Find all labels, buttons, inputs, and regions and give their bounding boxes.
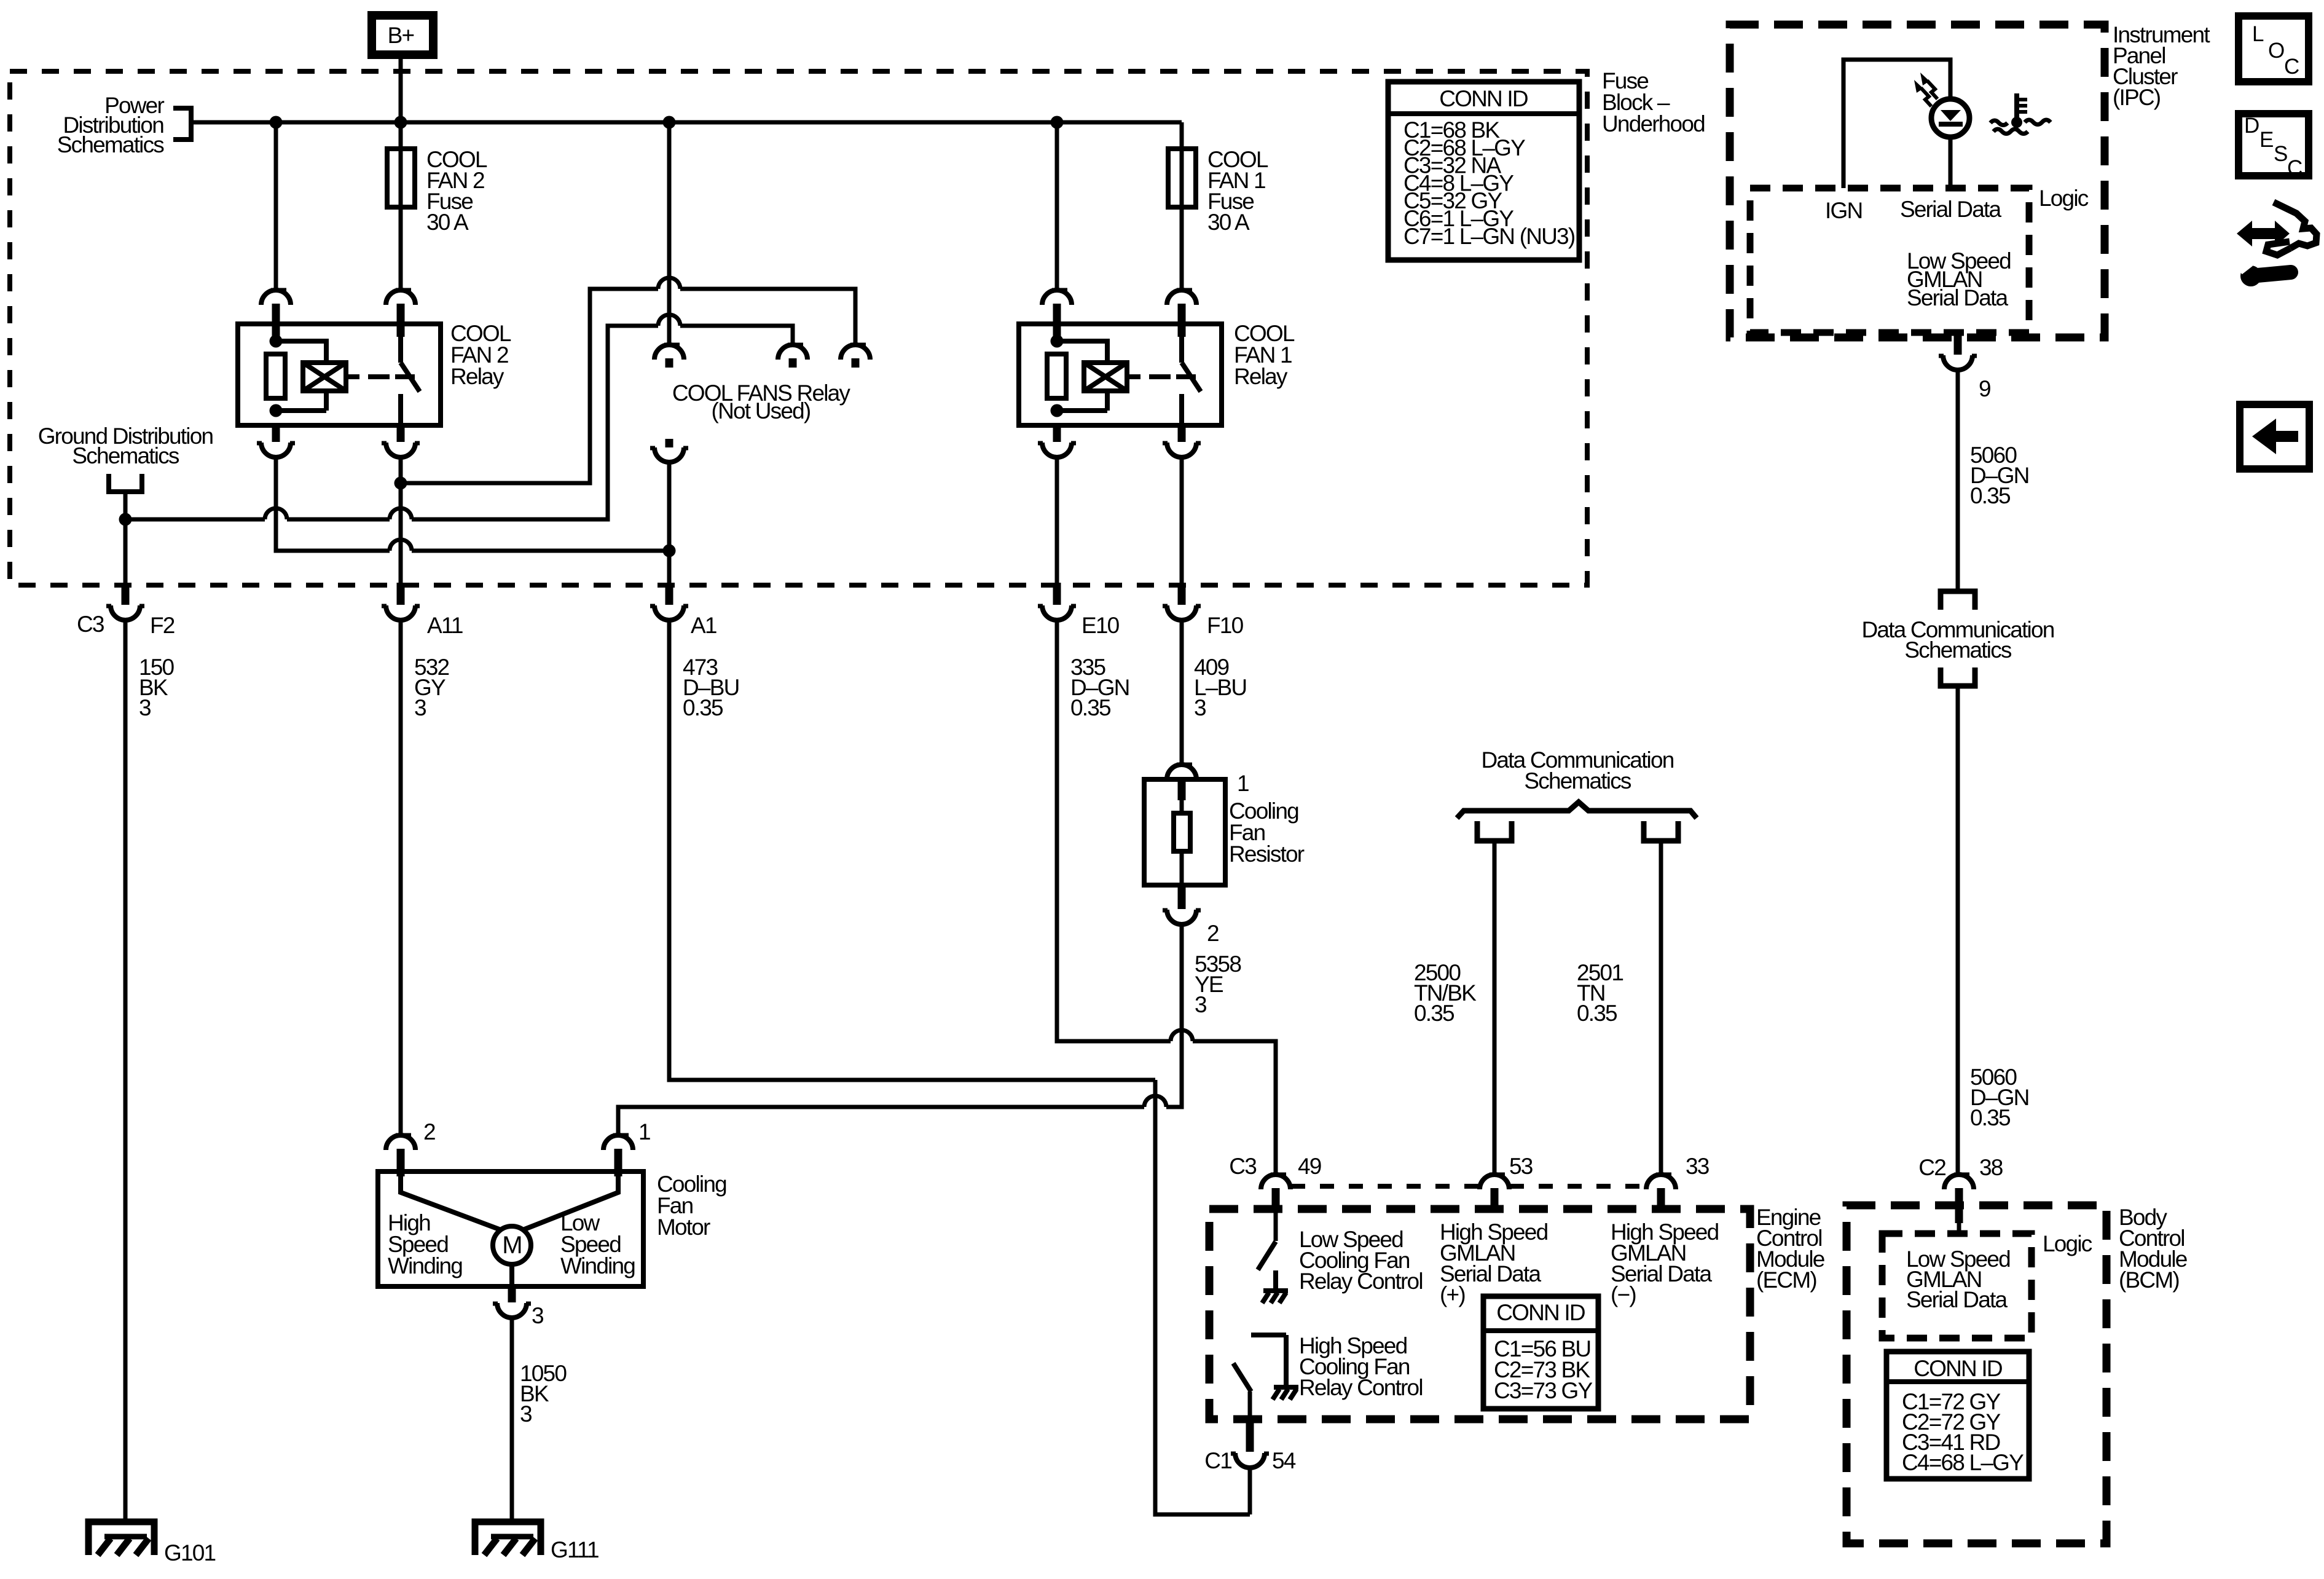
connector motor pin 1 [603, 1135, 633, 1150]
relay COOL FAN 1 Relay [1019, 324, 1222, 425]
connector exit E10 [1053, 583, 1061, 605]
wire COOL FAN 2 switch output branch [399, 457, 403, 583]
svg-text:(IPC): (IPC) [2113, 85, 2161, 110]
switch low speed cooling fan relay control [1274, 1212, 1278, 1241]
connector pin 86 COOL FAN 2 relay [261, 290, 291, 305]
switch high speed cooling fan relay control [1251, 1335, 1286, 1385]
svg-text:M: M [502, 1232, 522, 1259]
svg-text:C3: C3 [77, 612, 104, 637]
connector pin 85 COOL FAN 2 relay [272, 424, 280, 442]
svg-text:Motor: Motor [657, 1215, 710, 1240]
svg-text:Underhood: Underhood [1602, 111, 1705, 136]
svg-text:38: 38 [1979, 1155, 2003, 1180]
svg-text:G101: G101 [164, 1540, 216, 1565]
svg-text:(ECM): (ECM) [1756, 1267, 1816, 1293]
svg-text:Relay: Relay [1234, 364, 1288, 389]
svg-text:49: 49 [1298, 1154, 1321, 1179]
svg-text:Winding: Winding [388, 1253, 462, 1278]
svg-text:54: 54 [1272, 1448, 1296, 1473]
wire ECM connector tie line [1291, 1184, 1646, 1189]
wire 5060 D-GN lower [1956, 688, 1960, 1175]
svg-text:Schematics: Schematics [72, 443, 179, 468]
node bus junction coil2 [270, 116, 283, 129]
LED light arrows [1921, 81, 1937, 106]
svg-text:C1: C1 [1204, 1448, 1231, 1473]
logic dashed box BCM [1882, 1234, 2032, 1338]
connector pin 86 COOL FAN 1 relay [1042, 290, 1072, 305]
wire 473 D-BU down [669, 620, 1155, 1080]
svg-text:Relay Control: Relay Control [1299, 1375, 1423, 1400]
wire COOL FAN 2 coil low side [276, 457, 669, 551]
svg-text:0.35: 0.35 [1577, 1001, 1617, 1026]
wire motor internal windings [401, 1176, 618, 1230]
connector ECM pin 33 [1646, 1175, 1676, 1189]
wire BCM pin 38 into logic [1957, 1223, 1961, 1235]
connector pin 30 COOL FAN 2 relay [386, 290, 415, 305]
svg-text:2: 2 [423, 1119, 435, 1144]
svg-text:30 A: 30 A [1207, 210, 1250, 235]
svg-text:C3=73 GY: C3=73 GY [1494, 1378, 1593, 1403]
motor Cooling Fan Motor box [378, 1171, 643, 1286]
wire 335 D-GN down [1057, 620, 1276, 1175]
svg-text:Logic: Logic [2043, 1231, 2092, 1256]
icon back arrow box [2240, 404, 2309, 469]
svg-text:Winding: Winding [560, 1253, 635, 1278]
wire 150 BK to G101 [124, 620, 128, 1521]
table BCM CONN ID [1886, 1352, 2029, 1479]
fuse COOL FAN 1 Fuse 30A [1168, 149, 1196, 207]
svg-text:0.35: 0.35 [1970, 483, 2011, 508]
wire ground bracket stem [124, 492, 128, 583]
svg-text:Serial Data: Serial Data [1906, 1287, 2008, 1312]
svg-text:Schematics: Schematics [1524, 768, 1631, 793]
svg-text:Relay Control: Relay Control [1299, 1269, 1423, 1294]
wire 5060 D-GN upper [1956, 370, 1960, 589]
connector resistor pin 1 [1167, 765, 1196, 779]
wire ground distribution to FANS relay [125, 326, 793, 519]
reference bracket wire 2501 [1644, 821, 1678, 841]
connector exit A1 [665, 583, 673, 605]
module Instrument Panel Cluster dashed box [1730, 25, 2105, 337]
wire 409 L-BU to resistor [1180, 620, 1184, 765]
svg-text:Relay: Relay [450, 364, 504, 389]
connector ECM pin 53 [1480, 1175, 1509, 1189]
connector ECM pin 49 [1261, 1175, 1290, 1189]
wire 1050 BK to G111 [510, 1318, 514, 1522]
ground G111 [475, 1522, 541, 1555]
svg-text:0.35: 0.35 [1970, 1105, 2011, 1130]
svg-text:3: 3 [532, 1303, 543, 1328]
svg-text:C2: C2 [1918, 1155, 1945, 1180]
wire fuse1 drop [1180, 122, 1184, 290]
reference bracket wire 2500 [1477, 821, 1512, 841]
svg-text:L: L [2252, 22, 2264, 46]
LED coolant indicator [1931, 99, 1969, 137]
node bus junction fuse2 [395, 116, 407, 129]
icon DESC box [2239, 114, 2309, 176]
svg-text:0.35: 0.35 [683, 695, 723, 720]
relay COOL FAN 2 Relay [238, 324, 441, 425]
svg-text:A11: A11 [427, 613, 463, 638]
svg-text:D: D [2244, 114, 2259, 138]
wire fuse2 drop [399, 122, 403, 290]
wire B+ bus [191, 120, 1182, 125]
table ECM CONN ID [1483, 1296, 1598, 1409]
ground distribution bracket [109, 474, 142, 492]
svg-text:2: 2 [1207, 921, 1219, 946]
connector ECM pin 54 [1246, 1417, 1254, 1452]
connector motor pin 2 [386, 1135, 415, 1150]
connector exit F10 [1178, 583, 1186, 605]
svg-text:3: 3 [1194, 695, 1206, 720]
icon service tools [2237, 221, 2290, 246]
B+ battery terminal [372, 15, 433, 55]
connector resistor pin 2 [1178, 884, 1186, 909]
svg-text:CONN ID: CONN ID [1496, 1300, 1585, 1325]
wire coil2 feed [274, 122, 278, 290]
svg-text:O: O [2268, 39, 2284, 63]
node bus junction coil1 [1051, 116, 1064, 129]
svg-text:E: E [2259, 128, 2273, 152]
reference Data Communication Schematics upper bracket [1941, 591, 1975, 610]
connector FANS relay pin 30 [654, 345, 684, 360]
svg-text:E10: E10 [1082, 613, 1120, 638]
ground G101 [88, 1522, 154, 1555]
connector exit A11 [397, 583, 405, 605]
svg-text:33: 33 [1686, 1154, 1709, 1179]
Fuse Block - Underhood dashed box [10, 71, 1587, 585]
logic dashed box IPC [1750, 188, 2029, 333]
wire motor pin 3 [509, 1264, 514, 1286]
icon LOC box [2239, 16, 2309, 82]
svg-text:Logic: Logic [2039, 186, 2089, 211]
svg-text:1: 1 [638, 1119, 650, 1144]
connector FANS relay pin 87 [841, 345, 870, 360]
motor M symbol [493, 1226, 531, 1264]
connector FANS relay harness [665, 439, 673, 447]
svg-text:3: 3 [520, 1401, 532, 1427]
wire 473 D-BU to ECM pin 54 [1155, 1080, 1250, 1514]
svg-text:(−): (−) [1611, 1282, 1636, 1307]
svg-text:0.35: 0.35 [1414, 1001, 1454, 1026]
power distribution bracket [173, 108, 191, 140]
svg-text:C: C [2287, 156, 2302, 180]
connector pin 87 COOL FAN 1 relay [1178, 424, 1186, 442]
node ground junction [119, 513, 132, 526]
ground high speed switch [1273, 1387, 1298, 1400]
wire B+ to FANS relay [667, 122, 672, 345]
svg-text:G111: G111 [551, 1537, 599, 1562]
svg-text:(Not Used): (Not Used) [712, 398, 811, 423]
connector exit C3 F2 [122, 583, 130, 605]
table Fuse Block CONN ID [1388, 82, 1579, 260]
wire B+ feed [399, 59, 403, 122]
wire 532 GY to motor pin 2 [399, 620, 403, 1135]
connector pin 85 COOL FAN 1 relay [1053, 424, 1061, 442]
wire 5358 YE resistor to motor [618, 924, 1182, 1135]
icon coolant temperature [2014, 93, 2019, 121]
svg-text:IGN: IGN [1825, 198, 1862, 223]
svg-text:9: 9 [1979, 376, 1990, 401]
wire COOL FAN 1 coil low side [1055, 457, 1059, 583]
module Body Control Module dashed box [1847, 1205, 2106, 1543]
svg-text:(+): (+) [1440, 1282, 1465, 1307]
brace data communication [1457, 802, 1697, 818]
wire FANS harness down [667, 462, 672, 583]
svg-text:B+: B+ [388, 23, 414, 48]
node bus junction fans relay [663, 116, 676, 129]
connector pin 87 COOL FAN 2 relay [397, 424, 405, 442]
svg-text:C3: C3 [1229, 1154, 1256, 1179]
svg-text:Serial Data: Serial Data [1907, 285, 2008, 310]
svg-text:F2: F2 [150, 613, 175, 638]
wire 2500 TN/BK [1493, 841, 1497, 1175]
connector pin 30 COOL FAN 1 relay [1167, 290, 1196, 305]
connector motor pin 3 [508, 1285, 516, 1302]
svg-text:A1: A1 [691, 613, 716, 638]
module Engine Control Module dashed box [1209, 1209, 1750, 1419]
svg-text:(BCM): (BCM) [2119, 1267, 2179, 1293]
fuse COOL FAN 2 Fuse 30A [387, 149, 415, 207]
svg-text:53: 53 [1509, 1154, 1533, 1179]
svg-text:CONN ID: CONN ID [1439, 86, 1528, 111]
svg-text:1: 1 [1237, 771, 1249, 796]
node junction coil2 low to wire 473 [663, 545, 676, 557]
wire IGN loop [1843, 60, 1950, 188]
svg-text:F10: F10 [1207, 613, 1244, 638]
ground low speed switch [1262, 1291, 1288, 1303]
svg-text:S: S [2274, 142, 2287, 166]
svg-text:Resistor: Resistor [1229, 841, 1305, 867]
wire 2501 TN [1659, 841, 1663, 1175]
svg-text:0.35: 0.35 [1070, 695, 1111, 720]
svg-text:CONN ID: CONN ID [1914, 1356, 2002, 1381]
connector BCM pin 38 [1944, 1175, 1974, 1189]
svg-text:Serial Data: Serial Data [1900, 197, 2001, 222]
svg-text:30 A: 30 A [426, 210, 469, 235]
connector FANS relay pin 86 [778, 345, 807, 360]
svg-text:C7=1 L–GN (NU3): C7=1 L–GN (NU3) [1403, 224, 1575, 249]
svg-text:C4=68 L–GY: C4=68 L–GY [1902, 1450, 2024, 1475]
svg-text:3: 3 [414, 695, 426, 720]
svg-text:Schematics: Schematics [57, 132, 165, 157]
svg-text:Schematics: Schematics [1904, 637, 2012, 663]
connector IPC pin 9 [1954, 333, 1962, 355]
svg-text:C: C [2284, 55, 2299, 79]
wire coil1 feed [1055, 122, 1059, 290]
svg-text:3: 3 [139, 695, 151, 720]
reference Data Communication Schematics lower bracket [1941, 667, 1975, 686]
resistor Cooling Fan Resistor box [1144, 779, 1225, 885]
wire COOL FAN 1 switch output [1180, 457, 1184, 583]
svg-text:3: 3 [1195, 992, 1206, 1017]
